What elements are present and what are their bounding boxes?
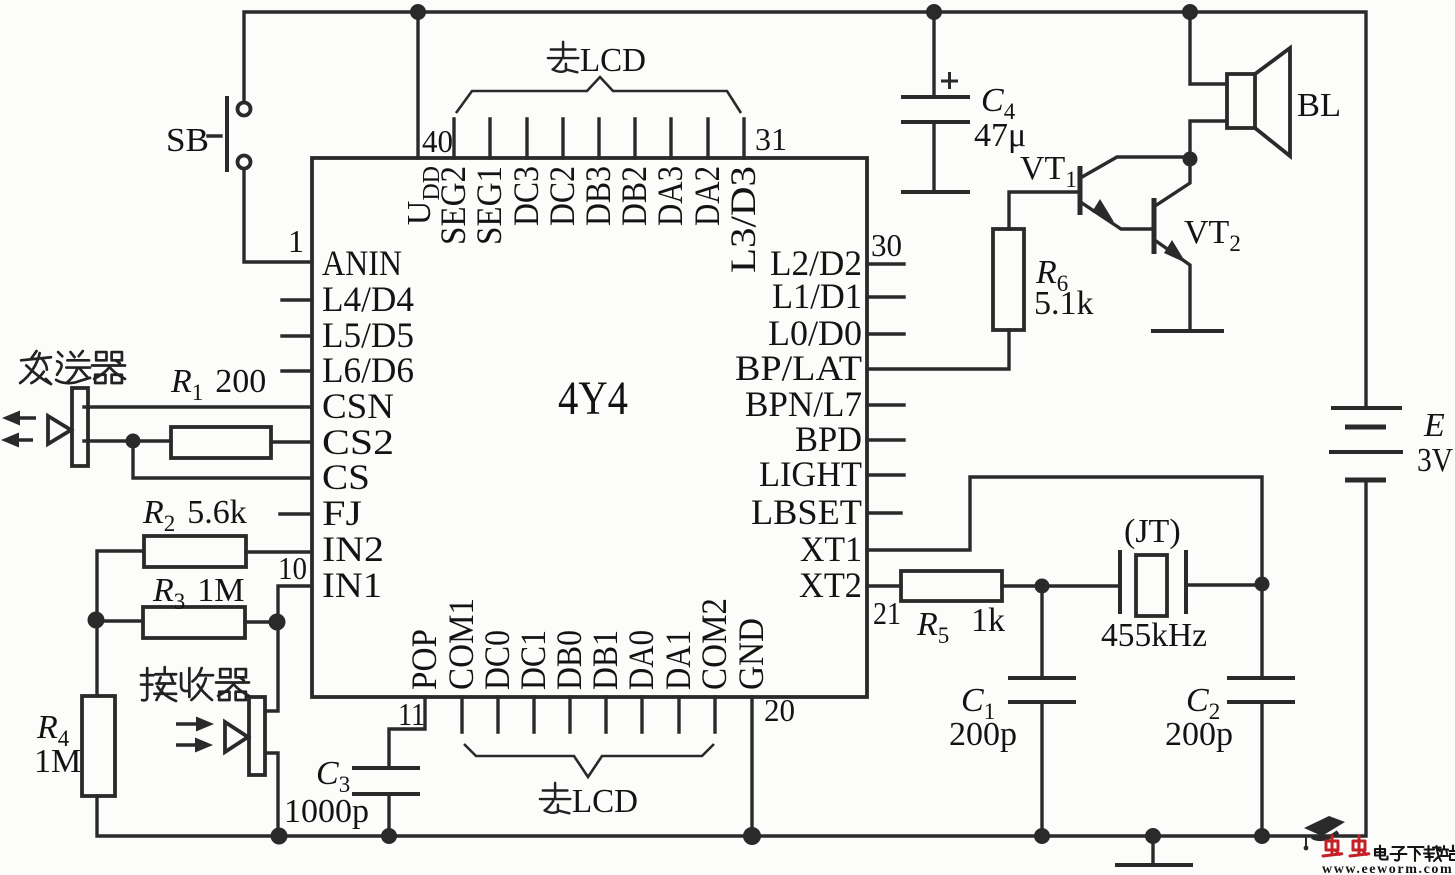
- svg-text:DC3: DC3: [506, 166, 546, 226]
- svg-text:IN2: IN2: [322, 529, 384, 569]
- svg-text:1: 1: [288, 223, 304, 259]
- svg-text:VT2: VT2: [1184, 214, 1241, 256]
- svg-text:L6/D6: L6/D6: [322, 350, 414, 390]
- svg-text:DA2: DA2: [687, 166, 727, 226]
- svg-text:5.1k: 5.1k: [1034, 285, 1094, 322]
- svg-text:VT1: VT1: [1020, 150, 1077, 192]
- svg-text:40: 40: [422, 123, 453, 159]
- svg-text:200p: 200p: [949, 716, 1017, 753]
- svg-text:DB3: DB3: [578, 166, 618, 226]
- svg-text:POP: POP: [404, 629, 444, 690]
- svg-text:3V: 3V: [1417, 442, 1453, 479]
- svg-text:LCD: LCD: [580, 42, 646, 79]
- svg-text:BL: BL: [1297, 87, 1341, 124]
- svg-text:455kHz: 455kHz: [1101, 617, 1207, 654]
- svg-text:SEG2: SEG2: [433, 166, 473, 245]
- svg-text:200p: 200p: [1165, 716, 1233, 753]
- svg-text:SEG1: SEG1: [469, 166, 509, 245]
- svg-text:DB0: DB0: [549, 630, 589, 690]
- svg-text:CS: CS: [322, 457, 370, 497]
- svg-text:1000p: 1000p: [284, 793, 369, 830]
- svg-text:DA3: DA3: [650, 166, 690, 226]
- svg-text:11: 11: [398, 696, 425, 732]
- svg-text:10: 10: [278, 550, 307, 586]
- svg-text:R25.6k: R25.6k: [142, 494, 247, 536]
- svg-text:31: 31: [755, 121, 787, 157]
- svg-text:XT1: XT1: [800, 529, 862, 569]
- svg-text:IN1: IN1: [322, 565, 382, 605]
- svg-text:SB: SB: [166, 122, 209, 159]
- svg-text:1M: 1M: [34, 743, 81, 780]
- svg-text:COM2: COM2: [694, 598, 734, 690]
- svg-text:20: 20: [764, 692, 795, 728]
- svg-text:R31M: R31M: [152, 572, 245, 614]
- svg-text:DB1: DB1: [585, 630, 625, 690]
- svg-text:1k: 1k: [971, 602, 1005, 639]
- svg-text:DA1: DA1: [658, 630, 698, 690]
- svg-text:DC0: DC0: [477, 630, 517, 690]
- svg-text:CS2: CS2: [322, 422, 394, 462]
- svg-text:47μ: 47μ: [974, 117, 1026, 154]
- svg-text:BP/LAT: BP/LAT: [735, 348, 862, 388]
- svg-text:L1/D1: L1/D1: [772, 276, 862, 316]
- svg-text:R5: R5: [916, 606, 949, 648]
- svg-text:LBSET: LBSET: [751, 492, 862, 532]
- svg-text:30: 30: [871, 227, 902, 263]
- svg-text:E: E: [1423, 407, 1445, 444]
- svg-text:GND: GND: [731, 618, 771, 690]
- svg-text:COM1: COM1: [441, 598, 481, 690]
- svg-text:www.eeworm.com: www.eeworm.com: [1322, 862, 1453, 875]
- svg-text:LIGHT: LIGHT: [759, 454, 862, 494]
- svg-text:(JT): (JT): [1124, 513, 1181, 550]
- svg-text:L3/D3: L3/D3: [723, 166, 763, 273]
- svg-text:BPD: BPD: [795, 419, 862, 459]
- svg-text:DB2: DB2: [614, 166, 654, 226]
- svg-text:R1200: R1200: [170, 363, 266, 405]
- svg-text:BPN/L7: BPN/L7: [745, 384, 862, 424]
- svg-text:C3: C3: [316, 755, 350, 797]
- svg-text:DC2: DC2: [542, 166, 582, 226]
- svg-text:L0/D0: L0/D0: [768, 313, 862, 353]
- svg-text:L4/D4: L4/D4: [322, 279, 414, 319]
- svg-text:21: 21: [873, 595, 901, 631]
- svg-text:CSN: CSN: [322, 386, 394, 426]
- svg-text:XT2: XT2: [799, 565, 862, 605]
- svg-text:DC1: DC1: [513, 630, 553, 690]
- svg-text:4Y4: 4Y4: [558, 372, 628, 425]
- svg-text:LCD: LCD: [572, 783, 638, 820]
- svg-text:L5/D5: L5/D5: [322, 315, 414, 355]
- svg-text:ANIN: ANIN: [322, 243, 402, 283]
- svg-text:DA0: DA0: [621, 630, 661, 690]
- svg-text:FJ: FJ: [322, 493, 362, 533]
